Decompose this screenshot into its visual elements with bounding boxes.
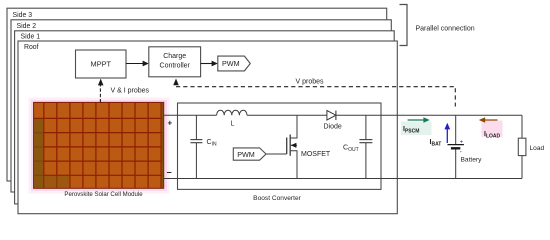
inductor L xyxy=(217,110,247,115)
svg-text:PWM: PWM xyxy=(237,150,255,159)
page Side 1 xyxy=(15,31,395,204)
transistor MOSFET xyxy=(287,115,297,178)
svg-text:Side 2: Side 2 xyxy=(17,23,37,30)
svg-text:IBAT: IBAT xyxy=(430,139,442,148)
arrow Charge Controller to PWM xyxy=(201,61,218,67)
svg-text:Controller: Controller xyxy=(160,62,191,69)
svg-text:Diode: Diode xyxy=(324,124,342,131)
current arrow Ibat xyxy=(444,123,450,143)
battery xyxy=(448,139,464,155)
svg-text:+: + xyxy=(460,139,463,145)
svg-text:V & I probes: V & I probes xyxy=(111,88,150,95)
arrow MPPT to Charge Controller xyxy=(126,61,149,67)
svg-text:MPPT: MPPT xyxy=(91,59,112,68)
svg-text:V probes: V probes xyxy=(296,79,325,86)
svg-text:Side 3: Side 3 xyxy=(13,12,33,19)
svg-text:-: - xyxy=(460,149,462,155)
diode D xyxy=(327,111,336,121)
current arrow Ipscm xyxy=(408,117,430,123)
page Side 2 xyxy=(11,20,391,192)
top wire from module xyxy=(164,114,217,116)
svg-text:Charge: Charge xyxy=(163,53,186,60)
capacitor Cin xyxy=(190,115,202,178)
dashed V and I probe arrow from module to MPPT xyxy=(98,79,104,103)
bracket parallel connection xyxy=(400,5,408,46)
capacitor Cout xyxy=(359,115,372,178)
PWM block (gate driver) xyxy=(233,148,266,160)
PWM block (controller output) xyxy=(218,56,251,71)
solar module pink glow xyxy=(29,98,170,194)
resistor Load xyxy=(518,138,526,155)
svg-text:Parallel connection: Parallel connection xyxy=(416,25,475,32)
highlight behind Ipscm xyxy=(401,122,432,136)
Charge Controller block xyxy=(149,47,201,77)
page Side 3 xyxy=(7,8,387,181)
svg-text:Perovskite Solar Cell Module: Perovskite Solar Cell Module xyxy=(64,191,143,198)
svg-text:Load: Load xyxy=(530,145,545,152)
svg-text:Roof: Roof xyxy=(24,44,39,51)
page Roof xyxy=(18,41,397,214)
current arrow Iload xyxy=(479,117,498,123)
svg-text:Boost Converter: Boost Converter xyxy=(253,195,301,202)
svg-text:PWM: PWM xyxy=(222,59,240,68)
svg-text:Side 1: Side 1 xyxy=(21,34,41,41)
battery branch wire xyxy=(455,115,457,178)
svg-text:−: − xyxy=(167,167,172,177)
MPPT block xyxy=(76,50,127,78)
svg-text:MOSFET: MOSFET xyxy=(301,151,331,158)
load branch wire xyxy=(521,115,523,178)
svg-text:+: + xyxy=(168,119,173,128)
perovskite solar cell module panel xyxy=(34,102,164,188)
wire PWM to gate xyxy=(266,153,287,155)
top wire after inductor xyxy=(247,114,522,116)
bottom wire xyxy=(164,178,522,180)
arrowhead into charge controller xyxy=(173,79,179,86)
highlight behind Iload xyxy=(482,121,503,138)
boost converter box xyxy=(178,103,382,189)
dashed V probes line to battery node xyxy=(176,87,455,107)
svg-text:L: L xyxy=(231,120,235,127)
svg-text:Battery: Battery xyxy=(461,157,483,164)
